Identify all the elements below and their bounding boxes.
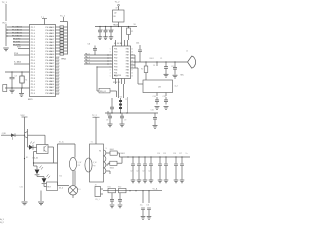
svg-text:J3: J3 bbox=[95, 184, 97, 186]
wire osc left bbox=[118, 84, 120, 98]
regulator U2 body bbox=[113, 10, 125, 22]
chain A dots bbox=[127, 156, 128, 157]
svg-text:P0.4/AD4: P0.4/AD4 bbox=[46, 59, 56, 62]
svg-text:15: 15 bbox=[131, 52, 133, 54]
svg-text:P1.1: P1.1 bbox=[31, 81, 36, 83]
svg-text:8: 8 bbox=[110, 70, 111, 72]
svg-text:TC_2: TC_2 bbox=[92, 115, 97, 117]
svg-text:PA3: PA3 bbox=[126, 66, 129, 69]
svg-text:12: 12 bbox=[131, 73, 133, 75]
diode D2 bbox=[11, 133, 15, 137]
svg-text:C11: C11 bbox=[136, 43, 139, 45]
svg-text:P20: P20 bbox=[57, 84, 60, 86]
IC U1 top pin bbox=[44, 19, 46, 25]
crystal Y1 bbox=[21, 72, 23, 76]
svg-text:P20: P20 bbox=[57, 63, 60, 65]
svg-text:P1.0: P1.0 bbox=[31, 60, 36, 62]
svg-text:C15: C15 bbox=[163, 96, 166, 98]
ground G5 bbox=[38, 201, 44, 203]
svg-text:T1: T1 bbox=[99, 151, 101, 153]
ground G2 bbox=[11, 88, 13, 90]
transformer T1 body bbox=[90, 144, 104, 182]
svg-text:A_1: A_1 bbox=[0, 218, 3, 221]
capacitor CB1 bbox=[111, 193, 113, 197]
svg-text:P20: P20 bbox=[57, 57, 60, 59]
capacitor C8 bbox=[109, 113, 111, 116]
svg-text:PB7: PB7 bbox=[114, 55, 117, 57]
wire MCU left pin row 36 bbox=[7, 35, 30, 37]
svg-text:PA6: PA6 bbox=[126, 69, 129, 72]
svg-text:C10: C10 bbox=[151, 110, 154, 112]
svg-text:P0.6/AD6: P0.6/AD6 bbox=[46, 77, 56, 80]
wire opto out top bbox=[48, 146, 54, 148]
wire RST bbox=[18, 48, 30, 50]
svg-text:C3: C3 bbox=[101, 29, 103, 31]
capacitor C9 bbox=[121, 113, 123, 116]
capacitor CB3 bbox=[142, 191, 144, 203]
capacitor C14 under U3 bbox=[156, 93, 158, 97]
regulator output pin bbox=[118, 22, 120, 27]
capacitor C15 under U3 bbox=[165, 93, 167, 97]
svg-text:V1 G2 S3: V1 G2 S3 bbox=[114, 43, 122, 45]
wire main right bbox=[135, 61, 187, 63]
svg-text:P1.9: P1.9 bbox=[31, 39, 36, 41]
transistor Q1 bbox=[27, 129, 29, 141]
wire XTAL2 bbox=[5, 87, 30, 89]
svg-text:R601: R601 bbox=[121, 153, 125, 155]
svg-text:MC1: MC1 bbox=[28, 99, 33, 101]
svg-text:R31: R31 bbox=[108, 186, 111, 188]
svg-text:P1.3/AD31: P1.3/AD31 bbox=[12, 35, 23, 38]
svg-text:C20: C20 bbox=[130, 171, 133, 173]
svg-text:T1: T1 bbox=[91, 142, 93, 144]
capacitor CA5 bbox=[165, 157, 167, 164]
svg-text:TC_1: TC_1 bbox=[60, 16, 66, 18]
svg-text:RN1: RN1 bbox=[62, 59, 67, 61]
wire osc extra bbox=[127, 97, 129, 113]
wire MCU left pin row 27 bbox=[7, 26, 30, 28]
svg-text:IN: IN bbox=[114, 16, 117, 18]
svg-text:X_TAL2: X_TAL2 bbox=[14, 61, 22, 64]
svg-text:PA4: PA4 bbox=[126, 51, 129, 54]
transformer T1 secondary bbox=[104, 150, 106, 156]
capacitor CA2 bbox=[144, 157, 146, 164]
IC U4 bottom pins bbox=[115, 79, 117, 85]
svg-text:B602: B602 bbox=[110, 167, 114, 169]
svg-text:P0.1/AD1: P0.1/AD1 bbox=[46, 80, 56, 83]
svg-text:B1: B1 bbox=[26, 157, 28, 159]
label RS_01 box bbox=[99, 88, 110, 93]
connector MK1 cone bbox=[188, 56, 196, 68]
capacitor C3 on bus bbox=[99, 27, 101, 31]
ferrite B601 bbox=[110, 151, 117, 155]
wire D ground bbox=[40, 191, 42, 202]
svg-text:P20: P20 bbox=[57, 93, 60, 95]
wire XTAL1 bbox=[5, 71, 30, 73]
svg-text:P20: P20 bbox=[57, 75, 60, 77]
svg-text:P0.4/AD4: P0.4/AD4 bbox=[46, 35, 56, 38]
svg-text:P1.7: P1.7 bbox=[31, 87, 36, 89]
svg-text:P0.5/AD5: P0.5/AD5 bbox=[46, 44, 56, 47]
wire chain A2 bbox=[117, 162, 122, 164]
svg-text:TC_2: TC_2 bbox=[115, 2, 121, 4]
lamp LP1 bbox=[72, 171, 74, 186]
svg-text:P0.1/AD1: P0.1/AD1 bbox=[46, 56, 56, 59]
svg-text:PA1: PA1 bbox=[126, 48, 129, 51]
svg-text:15: 15 bbox=[131, 76, 133, 78]
svg-text:P0.7/AD7: P0.7/AD7 bbox=[46, 86, 56, 89]
wires MCU lower right pins bbox=[56, 57, 60, 59]
svg-text:P0.7/AD7: P0.7/AD7 bbox=[46, 38, 56, 41]
svg-text:P0.3/AD3: P0.3/AD3 bbox=[46, 26, 56, 29]
svg-text:C25: C25 bbox=[163, 153, 166, 155]
svg-text:P1.7: P1.7 bbox=[31, 27, 36, 29]
svg-text:C8: C8 bbox=[106, 120, 108, 122]
svg-text:C9: C9 bbox=[124, 120, 126, 122]
svg-text:P20: P20 bbox=[57, 72, 60, 74]
svg-text:1P: 1P bbox=[116, 8, 119, 10]
svg-text:B601: B601 bbox=[110, 149, 114, 151]
svg-text:C22: C22 bbox=[142, 171, 145, 173]
svg-text:R32: R32 bbox=[118, 186, 121, 188]
svg-text:PB3: PB3 bbox=[114, 67, 117, 69]
capacitor C1 bbox=[11, 72, 13, 77]
svg-text:P20: P20 bbox=[57, 78, 60, 80]
svg-text:22: 22 bbox=[125, 99, 127, 101]
svg-text:P1.7: P1.7 bbox=[31, 57, 36, 59]
wire mid rail bbox=[33, 155, 35, 166]
capacitor C2 bbox=[3, 85, 7, 92]
resistor R3 bbox=[108, 188, 116, 192]
capacitor C7 bbox=[111, 98, 113, 103]
wire osc right bbox=[123, 84, 125, 98]
svg-text:X1 G X2: X1 G X2 bbox=[113, 82, 120, 84]
svg-text:C1: C1 bbox=[160, 58, 162, 60]
svg-text:P1.0/AD01: P1.0/AD01 bbox=[12, 26, 23, 29]
svg-text:P1.0: P1.0 bbox=[31, 90, 36, 92]
svg-text:P1.8: P1.8 bbox=[31, 78, 36, 80]
svg-text:3_2: 3_2 bbox=[175, 86, 178, 88]
svg-text:P1.1: P1.1 bbox=[31, 51, 36, 53]
svg-text:P20: P20 bbox=[57, 60, 60, 62]
svg-text:PB1: PB1 bbox=[114, 49, 117, 51]
LED opto diode bbox=[29, 145, 33, 150]
svg-text:5V: 5V bbox=[134, 24, 137, 26]
svg-text:V+: V+ bbox=[186, 153, 188, 155]
svg-text:D1: D1 bbox=[153, 65, 155, 67]
svg-text:J2: J2 bbox=[186, 51, 188, 53]
relay K1 coil bbox=[69, 157, 76, 170]
svg-text:P0.0/AD0: P0.0/AD0 bbox=[46, 71, 56, 74]
svg-text:P1.4/T0: P1.4/T0 bbox=[13, 39, 21, 41]
svg-text:VCC: VCC bbox=[2, 23, 7, 25]
svg-text:C24: C24 bbox=[157, 153, 160, 155]
svg-text:17: 17 bbox=[131, 70, 133, 72]
wire RXD bbox=[14, 54, 30, 56]
capacitor CB2 bbox=[119, 193, 121, 197]
svg-text:P0.5/AD5: P0.5/AD5 bbox=[46, 68, 56, 71]
svg-text:P3.0: P3.0 bbox=[14, 53, 19, 55]
wire power bus bbox=[95, 26, 137, 28]
resistor network RN1 elements bbox=[60, 26, 64, 28]
driver A1 box bbox=[47, 182, 58, 191]
svg-text:PA7: PA7 bbox=[126, 54, 129, 57]
svg-text:P1.4: P1.4 bbox=[31, 84, 36, 86]
resistor R1 on bus bbox=[128, 27, 130, 29]
svg-text:P1.5/T1: P1.5/T1 bbox=[13, 42, 21, 44]
svg-text:C5: C5 bbox=[112, 29, 114, 31]
capacitor CA6 bbox=[175, 157, 177, 164]
svg-text:P0.2/AD2: P0.2/AD2 bbox=[46, 41, 56, 44]
IC U4 body bbox=[113, 46, 131, 79]
svg-text:12: 12 bbox=[131, 49, 133, 51]
capacitor CA4 bbox=[159, 157, 161, 164]
svg-text:P0.2/AD2: P0.2/AD2 bbox=[46, 65, 56, 68]
svg-text:J_IN: J_IN bbox=[1, 133, 6, 135]
svg-text:P0.7/AD7: P0.7/AD7 bbox=[46, 62, 56, 65]
svg-text:X1: X1 bbox=[25, 80, 27, 82]
svg-text:P1.2: P1.2 bbox=[31, 42, 36, 44]
svg-text:P1.6: P1.6 bbox=[31, 66, 36, 68]
svg-text:P1.2/AD21: P1.2/AD21 bbox=[12, 32, 23, 35]
IC U4 top pins bbox=[115, 40, 117, 46]
svg-text:P0.6/AD6: P0.6/AD6 bbox=[46, 29, 56, 32]
svg-text:C16: C16 bbox=[20, 187, 23, 189]
wire MCU left pin row 33 bbox=[7, 32, 30, 34]
label D1 bbox=[156, 62, 158, 66]
svg-text:8_W: 8_W bbox=[93, 162, 97, 164]
svg-text:PB2: PB2 bbox=[114, 58, 117, 60]
wires MCU right pins to RN1 bbox=[56, 26, 61, 28]
svg-text:S: S bbox=[106, 148, 108, 150]
svg-text:P1.3: P1.3 bbox=[31, 63, 36, 65]
svg-text:P0.1/AD1: P0.1/AD1 bbox=[46, 32, 56, 35]
wire TXD bbox=[14, 63, 30, 65]
ground G3 bbox=[21, 88, 23, 93]
ground G1 bbox=[3, 47, 9, 49]
ferrite B602 bbox=[110, 161, 117, 165]
svg-text:PA0: PA0 bbox=[126, 63, 129, 66]
svg-text:P1.2: P1.2 bbox=[31, 72, 36, 74]
svg-text:P0.3/AD3: P0.3/AD3 bbox=[46, 50, 56, 53]
svg-text:R2: R2 bbox=[141, 69, 143, 71]
wire chain A bbox=[120, 156, 191, 158]
svg-text:P20: P20 bbox=[57, 66, 60, 68]
svg-text:P20: P20 bbox=[57, 69, 60, 71]
wire net RS down bbox=[96, 67, 98, 91]
svg-text:PB6: PB6 bbox=[114, 70, 117, 72]
svg-text:1_W: 1_W bbox=[77, 162, 81, 164]
svg-text:CN_1: CN_1 bbox=[95, 199, 100, 201]
svg-text:P0.5/AD5: P0.5/AD5 bbox=[46, 92, 56, 95]
svg-text:PB0: PB0 bbox=[114, 64, 117, 66]
svg-text:P20: P20 bbox=[57, 90, 60, 92]
wire VCC rail left bbox=[5, 24, 7, 46]
wire left rail bbox=[24, 135, 26, 201]
svg-text:PA4: PA4 bbox=[126, 75, 129, 78]
crystal Y2 chain bbox=[120, 98, 122, 113]
svg-text:U3: U3 bbox=[158, 87, 161, 89]
IC U3 body bbox=[143, 80, 173, 93]
wire MCU left pin row 39 bbox=[13, 38, 30, 40]
wires U4 right pins bbox=[131, 54, 136, 56]
svg-text:C27: C27 bbox=[179, 153, 182, 155]
svg-text:P0.2/AD2: P0.2/AD2 bbox=[46, 89, 56, 92]
svg-text:P1.5: P1.5 bbox=[31, 45, 36, 47]
wire U3 feed bbox=[135, 67, 138, 69]
svg-text:P1.6: P1.6 bbox=[31, 36, 36, 38]
svg-text:P1.1/AD11: P1.1/AD11 bbox=[12, 29, 23, 32]
svg-text:PA5: PA5 bbox=[126, 60, 129, 63]
svg-text:P1.0: P1.0 bbox=[31, 30, 36, 32]
svg-text:RLY: RLY bbox=[48, 187, 52, 189]
LED D3 bbox=[34, 165, 38, 167]
RN1 common bus bbox=[67, 22, 69, 55]
capacitor CB4 bbox=[148, 191, 150, 203]
transformer secondary pins bbox=[106, 152, 110, 154]
svg-text:RS_01: RS_01 bbox=[100, 91, 106, 93]
svg-text:K1: K1 bbox=[60, 176, 62, 178]
capacitor C10 bbox=[154, 113, 156, 115]
capacitor CA3 bbox=[150, 157, 152, 164]
svg-text:P1.3: P1.3 bbox=[31, 93, 36, 95]
capacitor CA0 bbox=[132, 157, 134, 164]
wire RS to osc bbox=[110, 90, 117, 92]
svg-text:C14: C14 bbox=[153, 96, 156, 98]
svg-text:R601: R601 bbox=[150, 58, 154, 60]
svg-text:VC_A: VC_A bbox=[153, 187, 158, 190]
wire U4 left pin 5 bbox=[97, 66, 113, 68]
svg-text:104: 104 bbox=[146, 205, 149, 207]
svg-text:R1: R1 bbox=[131, 31, 133, 33]
svg-text:MIC: MIC bbox=[181, 75, 185, 77]
svg-text:P1.3: P1.3 bbox=[31, 33, 36, 35]
svg-text:1K_0: 1K_0 bbox=[59, 187, 63, 189]
svg-text:U2: U2 bbox=[114, 13, 116, 15]
capacitor C12 bbox=[165, 62, 167, 67]
svg-text:PA2: PA2 bbox=[126, 57, 129, 60]
resistor R2 bbox=[145, 62, 147, 66]
capacitor C5 on bus bbox=[110, 27, 112, 31]
wire Q1 to opto bbox=[27, 141, 29, 148]
svg-text:P0.6/AD6: P0.6/AD6 bbox=[46, 53, 56, 56]
capacitor CA1 bbox=[138, 157, 140, 164]
svg-text:L1: L1 bbox=[79, 189, 81, 191]
wires U4 left pins bbox=[84, 54, 113, 56]
svg-text:C3: C3 bbox=[15, 76, 17, 78]
relay K1 body bbox=[57, 144, 59, 186]
svg-text:2: 2 bbox=[110, 73, 111, 75]
wire MCU left pin row 45 bbox=[13, 44, 30, 46]
wire LED to driver bbox=[43, 184, 45, 187]
svg-text:PB5: PB5 bbox=[114, 61, 117, 63]
svg-text:C26: C26 bbox=[173, 153, 176, 155]
svg-text:C23: C23 bbox=[148, 171, 151, 173]
capacitor CA7 bbox=[181, 157, 183, 164]
svg-text:2W: 2W bbox=[78, 165, 81, 167]
svg-text:TC_1: TC_1 bbox=[2, 2, 8, 4]
svg-text:P20: P20 bbox=[57, 81, 60, 83]
svg-text:C6: C6 bbox=[88, 44, 90, 46]
wire chain B bbox=[103, 190, 162, 192]
svg-text:B_2: B_2 bbox=[0, 222, 3, 224]
svg-text:K1_A: K1_A bbox=[59, 141, 64, 144]
svg-text:P1.9: P1.9 bbox=[31, 69, 36, 71]
transformer T1 primary bbox=[85, 158, 92, 172]
optocoupler U5 transistor bbox=[43, 147, 45, 152]
resistor R4 bbox=[119, 188, 127, 192]
svg-text:P0.3/AD3: P0.3/AD3 bbox=[46, 74, 56, 77]
svg-text:AT2413: AT2413 bbox=[114, 74, 122, 77]
IC U1 AT89C52 body bbox=[30, 25, 56, 97]
svg-text:5: 5 bbox=[110, 49, 111, 51]
LED D4 bbox=[36, 175, 38, 177]
wire MCU left pin row 42 bbox=[13, 41, 30, 43]
svg-text:5: 5 bbox=[110, 76, 111, 78]
svg-text:PB4: PB4 bbox=[114, 52, 117, 54]
svg-text:P0.4/AD4: P0.4/AD4 bbox=[46, 83, 56, 86]
svg-text:P20: P20 bbox=[57, 87, 60, 89]
capacitor C4 on bus bbox=[105, 27, 107, 31]
wire MCU left pin row 30 bbox=[7, 29, 30, 31]
optocoupler U5 body bbox=[37, 145, 49, 154]
connector J3 bbox=[95, 187, 101, 197]
svg-text:P1.8: P1.8 bbox=[31, 48, 36, 50]
wire bottom bus bbox=[105, 112, 158, 114]
wire driver out bbox=[57, 186, 59, 188]
ground G4 bbox=[22, 201, 28, 203]
svg-text:C21: C21 bbox=[136, 171, 139, 173]
wire opto out bottom bbox=[34, 151, 37, 153]
svg-text:P1.4: P1.4 bbox=[31, 54, 36, 56]
svg-text:PW: PW bbox=[93, 166, 96, 168]
svg-text:P1.5: P1.5 bbox=[31, 75, 36, 77]
svg-text:8: 8 bbox=[110, 52, 111, 54]
svg-text:PA1: PA1 bbox=[126, 72, 129, 75]
svg-text:P0.0/AD0: P0.0/AD0 bbox=[46, 47, 56, 50]
svg-text:10u: 10u bbox=[140, 205, 143, 207]
svg-text:C4: C4 bbox=[106, 29, 108, 31]
